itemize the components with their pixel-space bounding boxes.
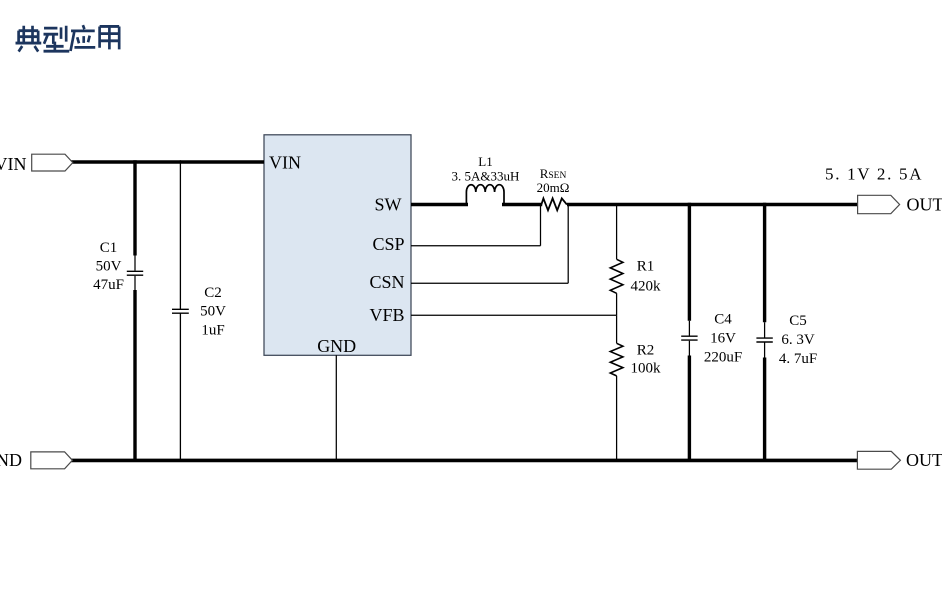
- connector OUT+: [858, 195, 942, 215]
- svg-text:R1: R1: [637, 259, 655, 275]
- wire CSN: [411, 206, 568, 283]
- connector GND: [0, 450, 72, 470]
- wire SW rail segment 1: [411, 203, 468, 207]
- svg-text:220uF: 220uF: [704, 350, 742, 366]
- svg-text:47uF: 47uF: [93, 277, 124, 293]
- svg-text:SW: SW: [375, 195, 402, 215]
- connector VIN: [0, 154, 73, 174]
- svg-text:20mΩ: 20mΩ: [537, 180, 570, 195]
- capacitor C1: [93, 160, 143, 462]
- wire GND pin: [335, 355, 337, 460]
- svg-text:RSEN: RSEN: [540, 166, 567, 181]
- IC U1 body: [264, 135, 411, 355]
- inductor L1: [452, 154, 520, 204]
- svg-text:OUT-: OUT-: [906, 450, 942, 470]
- svg-text:GND: GND: [317, 336, 356, 356]
- svg-text:50V: 50V: [96, 259, 122, 275]
- svg-text:CSN: CSN: [369, 272, 404, 292]
- svg-text:50V: 50V: [200, 304, 226, 320]
- svg-text:VIN: VIN: [269, 153, 301, 173]
- resistor R1: [610, 206, 661, 315]
- capacitor C4: [681, 203, 742, 462]
- title 典型应用: [16, 25, 120, 51]
- svg-text:1uF: 1uF: [201, 323, 224, 339]
- svg-text:100k: 100k: [631, 361, 662, 377]
- capacitor C5: [756, 203, 817, 462]
- svg-text:5. 1V 2. 5A: 5. 1V 2. 5A: [825, 165, 923, 184]
- svg-text:CSP: CSP: [372, 234, 404, 254]
- wire VIN rail: [70, 160, 264, 164]
- svg-text:C4: C4: [714, 312, 732, 328]
- connector OUT-: [857, 450, 942, 470]
- svg-text:4. 7uF: 4. 7uF: [779, 351, 817, 367]
- resistor RSEN: [537, 166, 570, 210]
- wire VFB: [411, 314, 617, 316]
- wire SW rail segment 2: [502, 203, 542, 207]
- svg-text:420k: 420k: [631, 279, 662, 295]
- svg-text:16V: 16V: [710, 331, 736, 347]
- svg-text:6. 3V: 6. 3V: [781, 332, 815, 348]
- svg-text:3. 5A&33uH: 3. 5A&33uH: [452, 169, 520, 184]
- svg-text:C5: C5: [789, 313, 807, 329]
- svg-text:VFB: VFB: [369, 305, 404, 325]
- svg-text:C2: C2: [204, 285, 222, 301]
- svg-text:VIN: VIN: [0, 154, 27, 174]
- wire ground rail: [71, 459, 859, 463]
- svg-text:OUT+: OUT+: [907, 195, 942, 215]
- wire output rail: [567, 203, 859, 207]
- svg-text:L1: L1: [478, 154, 492, 169]
- wire CSP: [411, 206, 541, 246]
- svg-text:R2: R2: [637, 343, 655, 359]
- svg-text:C1: C1: [100, 240, 118, 256]
- capacitor C2: [172, 160, 226, 462]
- resistor R2: [610, 315, 661, 460]
- svg-text:GND: GND: [0, 450, 22, 470]
